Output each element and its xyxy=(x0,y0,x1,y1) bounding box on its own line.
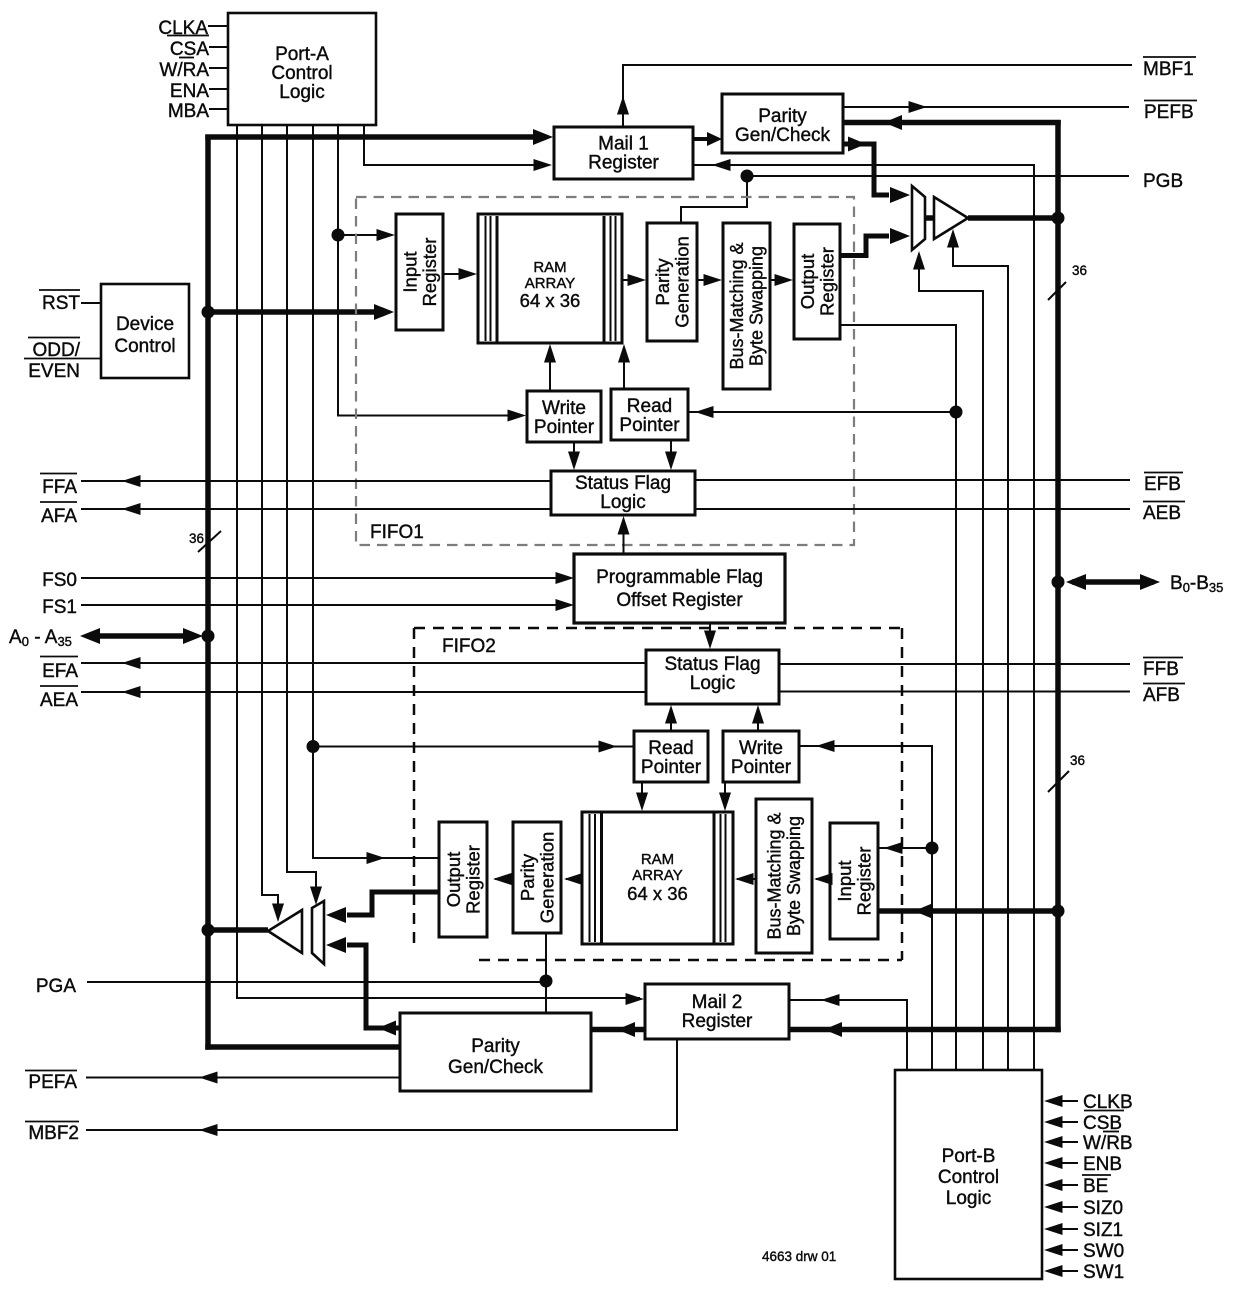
svg-text:Status Flag: Status Flag xyxy=(664,654,760,675)
svg-text:Logic: Logic xyxy=(600,492,645,513)
tri-state buffer lower A-port - triangle xyxy=(268,910,302,953)
wire Write Pointer up to RAM ARRAY FIFO1 xyxy=(549,350,551,391)
wire PGB branch to Parity Generation FIFO1 xyxy=(681,176,747,222)
wire thick A-bus branch into Input Register FIFO1 xyxy=(208,309,386,315)
wire thick Parity Gen/Check (bottom) to lower bus-driver xyxy=(347,945,400,1028)
svg-text:Offset Register: Offset Register xyxy=(616,590,743,611)
svg-text:Output: Output xyxy=(443,852,464,908)
junction dot B-bus / Input Register FIFO2 branch xyxy=(1052,905,1065,918)
svg-text:PGB: PGB xyxy=(1143,171,1183,192)
svg-text:Generation: Generation xyxy=(536,832,557,924)
svg-text:SW1: SW1 xyxy=(1083,1262,1124,1283)
svg-text:Pointer: Pointer xyxy=(641,757,702,778)
wire thick B-bus top feed into Parity Gen/Check (top) xyxy=(843,120,1061,126)
block Port-B Control Logic U3 xyxy=(895,1070,1042,1279)
svg-text:36: 36 xyxy=(1070,753,1085,768)
svg-text:SIZ1: SIZ1 xyxy=(1083,1220,1123,1241)
svg-text:64 x 36: 64 x 36 xyxy=(520,290,581,311)
bus-driver (tri-state) lower A-port - flat buffer symbol xyxy=(312,901,324,964)
wire Parity Generation FIFO2 down to Parity Gen/Check xyxy=(545,933,547,1013)
block Mail 1 Register xyxy=(554,127,693,179)
svg-text:Programmable Flag: Programmable Flag xyxy=(596,567,763,588)
pin stub CLKA xyxy=(208,25,228,27)
bus width marker 36 on B-bus top xyxy=(1048,282,1066,300)
wire thick Parity Gen/Check output to upper bus-driver xyxy=(843,144,889,195)
svg-text:Read: Read xyxy=(627,396,672,417)
block Input Register FIFO1 xyxy=(396,214,443,330)
arrowhead out of Parity Gen/Check bottom xyxy=(378,1021,396,1036)
svg-text:Control: Control xyxy=(271,63,332,84)
wire thick A-port data bus (vertical) xyxy=(205,135,211,1050)
wire Input Register to Bus-Matching FIFO2 xyxy=(816,878,830,880)
svg-text:Bus-Matching &: Bus-Matching & xyxy=(765,812,785,939)
junction dot control line 4 xyxy=(307,740,320,753)
svg-text:Port-B: Port-B xyxy=(942,1146,996,1167)
junction dot B-bus / B0-B35 port xyxy=(1052,576,1065,589)
svg-text:Register: Register xyxy=(588,153,659,174)
port B0-B35 bidirectional bus xyxy=(1072,579,1154,585)
block Programmable Flag Offset Register xyxy=(574,554,785,623)
svg-text:MBF1: MBF1 xyxy=(1143,59,1194,80)
wire thick B-bus bottom feed into Mail 2 Register xyxy=(789,1027,1061,1033)
wire Bus-Matching to Output Register FIFO1 xyxy=(770,279,788,281)
wire control line 2 from Port-A logic to lower tri-state enable xyxy=(262,125,278,910)
dashed boundary FIFO1 xyxy=(356,197,854,545)
wire AEB almost-empty flag output xyxy=(695,508,1130,510)
wire offset register up to Status Flag Logic FIFO1 xyxy=(623,522,625,554)
wire thick lower tri-state output to A-bus xyxy=(208,927,268,933)
svg-text:SW0: SW0 xyxy=(1083,1241,1124,1262)
wire PEFB parity error flag output xyxy=(843,106,1129,108)
wire Read Pointer down to Status Flag Logic FIFO1 xyxy=(670,440,672,465)
block Status Flag Logic FIFO2 xyxy=(646,650,779,704)
wire thick B-bus branch into Input Register FIFO2 xyxy=(878,908,1058,914)
wire thick A-bus top feed into Mail 1 Register xyxy=(205,134,546,140)
svg-text:ODD/: ODD/ xyxy=(33,340,81,361)
block Bus-Matching &amp; Byte Swapping FIFO2 xyxy=(756,799,812,953)
bus width marker 36 on A-bus xyxy=(198,531,221,552)
block Parity Gen/Check (Port B side) xyxy=(722,94,843,153)
svg-text:Mail 1: Mail 1 xyxy=(598,134,649,155)
bus-driver (tri-state) upper B-port - flat buffer symbol xyxy=(912,186,925,250)
svg-text:Pointer: Pointer xyxy=(534,417,595,438)
svg-text:Generation: Generation xyxy=(671,236,692,328)
svg-text:Parity: Parity xyxy=(471,1036,520,1057)
svg-text:Input: Input xyxy=(399,251,420,292)
junction dot Read Pointer FIFO1 branch xyxy=(950,406,963,419)
overline for BE xyxy=(1082,1174,1111,1176)
wire Port-B line to upper tri-state enable xyxy=(953,235,1008,1070)
block Write Pointer FIFO2 xyxy=(723,731,799,782)
wire branch into Read Pointer FIFO1 xyxy=(688,411,956,413)
svg-text:ENB: ENB xyxy=(1083,1154,1122,1175)
svg-text:Logic: Logic xyxy=(690,673,735,694)
overline for CSB xyxy=(1084,1110,1124,1112)
svg-text:Bus-Matching &: Bus-Matching & xyxy=(727,242,747,369)
svg-text:EFB: EFB xyxy=(1144,474,1181,495)
wire Port-B line / Output Register FIFO1 clock to Read Pointer FIFO1 xyxy=(840,325,956,1070)
wire Mail 1 Register to MBF1 flag output xyxy=(623,65,1132,127)
junction dot A-bus / Input Register branch xyxy=(202,306,215,319)
svg-text:Byte Swapping: Byte Swapping xyxy=(747,246,767,366)
wire FFA full flag output xyxy=(81,480,551,482)
svg-text:FIFO2: FIFO2 xyxy=(442,636,496,657)
block Output Register FIFO1 xyxy=(794,224,840,339)
wire control line 5 from Port-A logic to Input Register FIFO1 and Write Pointer FIFO1 xyxy=(338,125,521,416)
pin arrow ENB into Port-B logic xyxy=(1060,1162,1078,1164)
block Status Flag Logic FIFO1 xyxy=(551,471,695,515)
svg-text:Gen/Check: Gen/Check xyxy=(448,1057,544,1078)
pin stub W/RA xyxy=(209,67,228,69)
wire Write Pointer up to Status Flag Logic FIFO2 xyxy=(757,710,759,731)
wire Read Pointer up to Status Flag Logic FIFO2 xyxy=(670,710,672,731)
svg-text:EVEN: EVEN xyxy=(28,361,80,382)
wire control line 4 from Port-A logic to Read Pointer FIFO2 / Output Register FIFO2 xyxy=(313,125,439,858)
wire control line 1 from Port-A logic to Mail 2 Register xyxy=(236,125,238,999)
wire thick Output Register FIFO2 to lower bus-driver xyxy=(347,892,439,915)
svg-text:Logic: Logic xyxy=(279,82,324,103)
wire EFA empty flag output xyxy=(81,662,646,664)
block RAM ARRAY FIFO2 xyxy=(582,812,733,944)
svg-text:FS0: FS0 xyxy=(42,570,77,591)
bus width marker 36 on B-bus bottom xyxy=(1048,771,1069,792)
junction dot PGB branch xyxy=(741,170,754,183)
svg-text:Register: Register xyxy=(853,847,874,916)
wire PGB parity select input xyxy=(747,175,1129,177)
svg-text:Register: Register xyxy=(816,247,837,316)
wire Parity Generation to Output Register FIFO2 xyxy=(495,878,513,880)
svg-text:EFA: EFA xyxy=(42,661,78,682)
block Bus-Matching &amp; Byte Swapping FIFO1 xyxy=(723,223,770,389)
wire Write Pointer down to RAM ARRAY FIFO2 xyxy=(724,782,726,806)
svg-text:MBF2: MBF2 xyxy=(28,1123,79,1144)
wire FFB full flag output xyxy=(779,663,1130,665)
pin stub ODD/EVEN xyxy=(24,358,101,360)
svg-text:Register: Register xyxy=(462,845,483,914)
svg-text:36: 36 xyxy=(1072,263,1087,278)
wire PGA parity select input xyxy=(87,981,545,983)
wire RAM ARRAY to Parity Generation FIFO1 xyxy=(622,279,641,281)
dashed boundary FIFO2 xyxy=(414,627,902,630)
svg-text:FS1: FS1 xyxy=(42,597,77,618)
svg-text:Input: Input xyxy=(834,860,855,901)
wire RAM ARRAY to Parity Generation FIFO2 xyxy=(566,878,582,880)
svg-text:Control: Control xyxy=(114,336,175,357)
svg-text:Status Flag: Status Flag xyxy=(575,473,671,494)
pin arrow SW1 into Port-B logic xyxy=(1060,1270,1078,1272)
svg-text:36: 36 xyxy=(189,531,204,546)
pin arrow SW0 into Port-B logic xyxy=(1060,1249,1078,1251)
block Read Pointer FIFO2 xyxy=(634,731,708,782)
svg-text:Pointer: Pointer xyxy=(731,757,792,778)
svg-text:Port-A: Port-A xyxy=(275,44,329,65)
wire Read Pointer up to RAM ARRAY FIFO1 xyxy=(623,350,625,389)
wire Input Register to RAM ARRAY FIFO1 xyxy=(443,273,472,275)
svg-text:64 x 36: 64 x 36 xyxy=(627,883,688,904)
block Parity Generation FIFO1 xyxy=(647,223,697,341)
junction dot B-bus / tri-state output xyxy=(1052,212,1065,225)
wire Read Pointer down to RAM ARRAY FIFO2 xyxy=(641,782,643,806)
wire branch into Input Register FIFO2 xyxy=(878,847,932,849)
wire connector between upper buffers xyxy=(925,215,934,221)
wire Parity Generation to Bus-Matching FIFO1 xyxy=(697,279,717,281)
svg-text:AEB: AEB xyxy=(1143,503,1181,524)
wire Mail 1 Register read-back line from Port-B logic xyxy=(693,165,1034,1070)
block RAM ARRAY FIFO1 xyxy=(478,214,622,343)
wire Bus-Matching to RAM ARRAY FIFO2 xyxy=(737,878,756,880)
svg-text:Parity: Parity xyxy=(517,853,538,901)
svg-text:ENA: ENA xyxy=(170,81,209,102)
wire thick Output Register FIFO1 to upper bus-driver xyxy=(840,236,889,256)
pin stub RST xyxy=(81,302,101,304)
svg-text:Control: Control xyxy=(938,1167,999,1188)
svg-text:SIZ0: SIZ0 xyxy=(1083,1198,1123,1219)
block Mail 2 Register xyxy=(645,984,789,1039)
wire Mail 1 Register to Parity Gen/Check xyxy=(693,137,716,141)
block Input Register FIFO2 xyxy=(830,823,878,939)
block Write Pointer FIFO1 xyxy=(527,391,601,442)
wire FS1 flag-select input xyxy=(81,604,568,606)
svg-text:Write: Write xyxy=(542,398,586,419)
svg-text:Logic: Logic xyxy=(946,1188,991,1209)
svg-text:FFA: FFA xyxy=(42,477,77,498)
svg-text:PEFB: PEFB xyxy=(1144,102,1194,123)
svg-text:W/RB: W/RB xyxy=(1083,1133,1133,1154)
wire Port-B line to Write Pointer FIFO2 and Input Register FIFO2 xyxy=(799,746,932,1070)
svg-text:RAM: RAM xyxy=(641,851,674,868)
svg-text:Parity: Parity xyxy=(652,258,673,306)
svg-text:BE: BE xyxy=(1083,1176,1108,1197)
wire FS0 flag-select input xyxy=(81,577,568,579)
pin arrow CSB into Port-B logic xyxy=(1060,1121,1078,1123)
svg-text:FFB: FFB xyxy=(1143,659,1179,680)
svg-text:Write: Write xyxy=(739,738,783,759)
junction dot A-bus / tri-state output xyxy=(202,924,215,937)
svg-text:AFB: AFB xyxy=(1143,685,1180,706)
svg-text:Register: Register xyxy=(682,1011,753,1032)
wire AFA almost-full flag output xyxy=(81,508,551,510)
svg-text:4663 drw 01: 4663 drw 01 xyxy=(762,1249,836,1264)
wire Port-B line to upper bus-driver enable xyxy=(919,258,983,1070)
wire Mail 2 Register read-back line to Port-B logic xyxy=(789,1000,907,1070)
wire thick Mail 2 Register output to Parity Gen/Check xyxy=(591,1027,645,1033)
wire thick B-port data bus (vertical) xyxy=(1055,120,1061,1032)
svg-text:Device: Device xyxy=(116,314,174,335)
block Parity Gen/Check (Port A side) xyxy=(400,1013,591,1091)
svg-text:Read: Read xyxy=(648,738,693,759)
block Device Control U2 xyxy=(101,284,189,378)
arrowhead into upper bus-driver xyxy=(890,187,910,203)
junction dot Input Register FIFO2 branch xyxy=(926,842,939,855)
svg-text:Output: Output xyxy=(797,254,818,310)
svg-text:W/RA: W/RA xyxy=(159,60,209,81)
wire control line 6 from Port-A logic to Mail 1 Register xyxy=(364,125,546,165)
wire branch arrow into Input Register FIFO1 xyxy=(338,234,390,236)
pin stub MBA xyxy=(209,108,228,110)
tri-state buffer upper B-port - triangle xyxy=(934,197,968,239)
wire thick A-bus bottom feed into Parity Gen/Check xyxy=(205,1044,400,1050)
pin stub ENA xyxy=(209,88,228,90)
arrowhead into Output Register FIFO2 xyxy=(367,852,386,864)
junction dot A-bus / A0-A35 port xyxy=(202,630,215,643)
wire AFB almost-full flag output xyxy=(779,691,1130,693)
wire PEFA parity error flag output xyxy=(86,1077,400,1079)
svg-text:Byte Swapping: Byte Swapping xyxy=(784,816,804,936)
wire EFB empty flag output xyxy=(695,479,1130,481)
pin arrow BE into Port-B logic xyxy=(1060,1184,1078,1186)
wire branch to Read Pointer FIFO2 xyxy=(313,746,634,748)
svg-text:RAM: RAM xyxy=(533,259,566,276)
pin stub CSA xyxy=(209,46,228,48)
block Port-A Control Logic U1 xyxy=(228,13,376,125)
svg-text:AEA: AEA xyxy=(40,690,78,711)
svg-text:Register: Register xyxy=(419,238,440,307)
junction dot control line 5 xyxy=(332,229,345,242)
wire MBF2 mailbox flag output xyxy=(86,1039,677,1130)
wire thick upper tri-state output to B-bus xyxy=(968,215,1058,221)
svg-text:PEFA: PEFA xyxy=(28,1072,77,1093)
pin arrow SIZ1 into Port-B logic xyxy=(1060,1228,1078,1230)
pin arrow CLKB into Port-B logic xyxy=(1060,1100,1078,1102)
svg-text:MBA: MBA xyxy=(168,101,210,122)
wire Write Pointer down to Status Flag Logic FIFO1 xyxy=(573,442,575,465)
svg-text:RST: RST xyxy=(42,293,80,314)
pin arrow W/RB into Port-B logic xyxy=(1060,1141,1078,1143)
svg-text:PGA: PGA xyxy=(36,976,76,997)
svg-text:Gen/Check: Gen/Check xyxy=(735,125,831,146)
block Output Register FIFO2 xyxy=(439,822,487,937)
block Parity Generation FIFO2 xyxy=(513,822,561,933)
svg-text:Parity: Parity xyxy=(758,106,807,127)
junction dot PGA branch xyxy=(540,975,553,988)
svg-text:AFA: AFA xyxy=(41,506,77,527)
svg-text:ARRAY: ARRAY xyxy=(632,867,683,884)
port A0 - A35 bidirectional bus xyxy=(88,633,196,639)
overline on R of W/RB xyxy=(1103,1131,1119,1133)
wire offset register down to Status Flag Logic FIFO2 xyxy=(709,623,711,644)
arrowhead out of Parity Gen/Check xyxy=(848,137,866,152)
svg-text:Pointer: Pointer xyxy=(619,415,680,436)
svg-text:Mail 2: Mail 2 xyxy=(692,992,743,1013)
wire control line 3 from Port-A logic to lower bus-driver enable xyxy=(287,125,316,897)
svg-text:FIFO1: FIFO1 xyxy=(370,522,424,543)
pin arrow SIZ0 into Port-B logic xyxy=(1060,1206,1078,1208)
wire AEA almost-empty flag output xyxy=(81,691,646,693)
block Read Pointer FIFO1 xyxy=(611,389,688,440)
